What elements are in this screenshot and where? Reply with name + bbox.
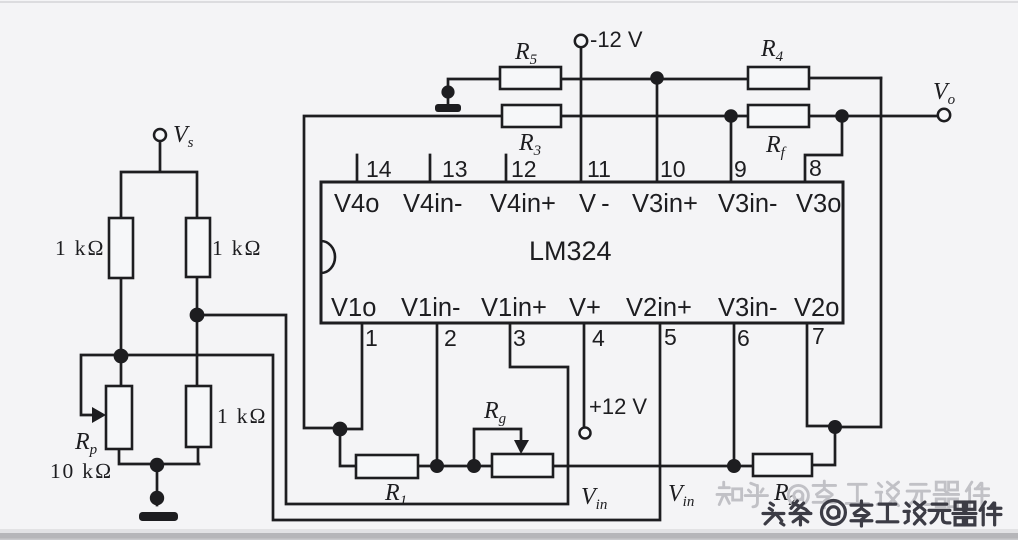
svg-text:3: 3 — [513, 325, 526, 351]
svg-text:V -: V - — [579, 190, 610, 218]
svg-text:V3o: V3o — [796, 190, 841, 218]
svg-text:V3in-: V3in- — [718, 294, 778, 322]
svg-text:V4in+: V4in+ — [490, 190, 556, 218]
svg-text:12: 12 — [511, 156, 537, 182]
svg-text:V1in+: V1in+ — [481, 294, 547, 322]
svg-text:13: 13 — [442, 156, 468, 182]
svg-text:V1o: V1o — [331, 294, 376, 322]
svg-text:6: 6 — [737, 325, 750, 351]
svg-text:V1in-: V1in- — [401, 294, 461, 322]
svg-text:1 kΩ: 1 kΩ — [212, 236, 263, 260]
svg-text:10: 10 — [660, 156, 686, 182]
svg-text:9: 9 — [734, 156, 747, 182]
svg-text:V+: V+ — [569, 294, 601, 322]
svg-text:+12 V: +12 V — [589, 394, 647, 419]
svg-text:7: 7 — [812, 323, 825, 349]
svg-text:1 kΩ: 1 kΩ — [217, 404, 268, 428]
svg-text:V2o: V2o — [794, 294, 839, 322]
svg-text:V3in-: V3in- — [718, 190, 778, 218]
svg-text:1 kΩ: 1 kΩ — [55, 236, 106, 260]
svg-text:-12 V: -12 V — [590, 27, 643, 52]
svg-text:8: 8 — [809, 155, 822, 181]
svg-text:V4in-: V4in- — [403, 190, 463, 218]
svg-text:2: 2 — [444, 325, 457, 351]
svg-text:V3in+: V3in+ — [632, 190, 698, 218]
svg-text:1: 1 — [365, 325, 378, 351]
svg-text:10 kΩ: 10 kΩ — [50, 459, 113, 483]
svg-text:11: 11 — [587, 156, 611, 182]
svg-text:LM324: LM324 — [529, 236, 612, 266]
svg-text:4: 4 — [592, 325, 605, 351]
svg-text:14: 14 — [366, 156, 392, 182]
svg-text:V2in+: V2in+ — [626, 294, 692, 322]
svg-text:V4o: V4o — [334, 190, 379, 218]
svg-text:5: 5 — [664, 324, 677, 350]
